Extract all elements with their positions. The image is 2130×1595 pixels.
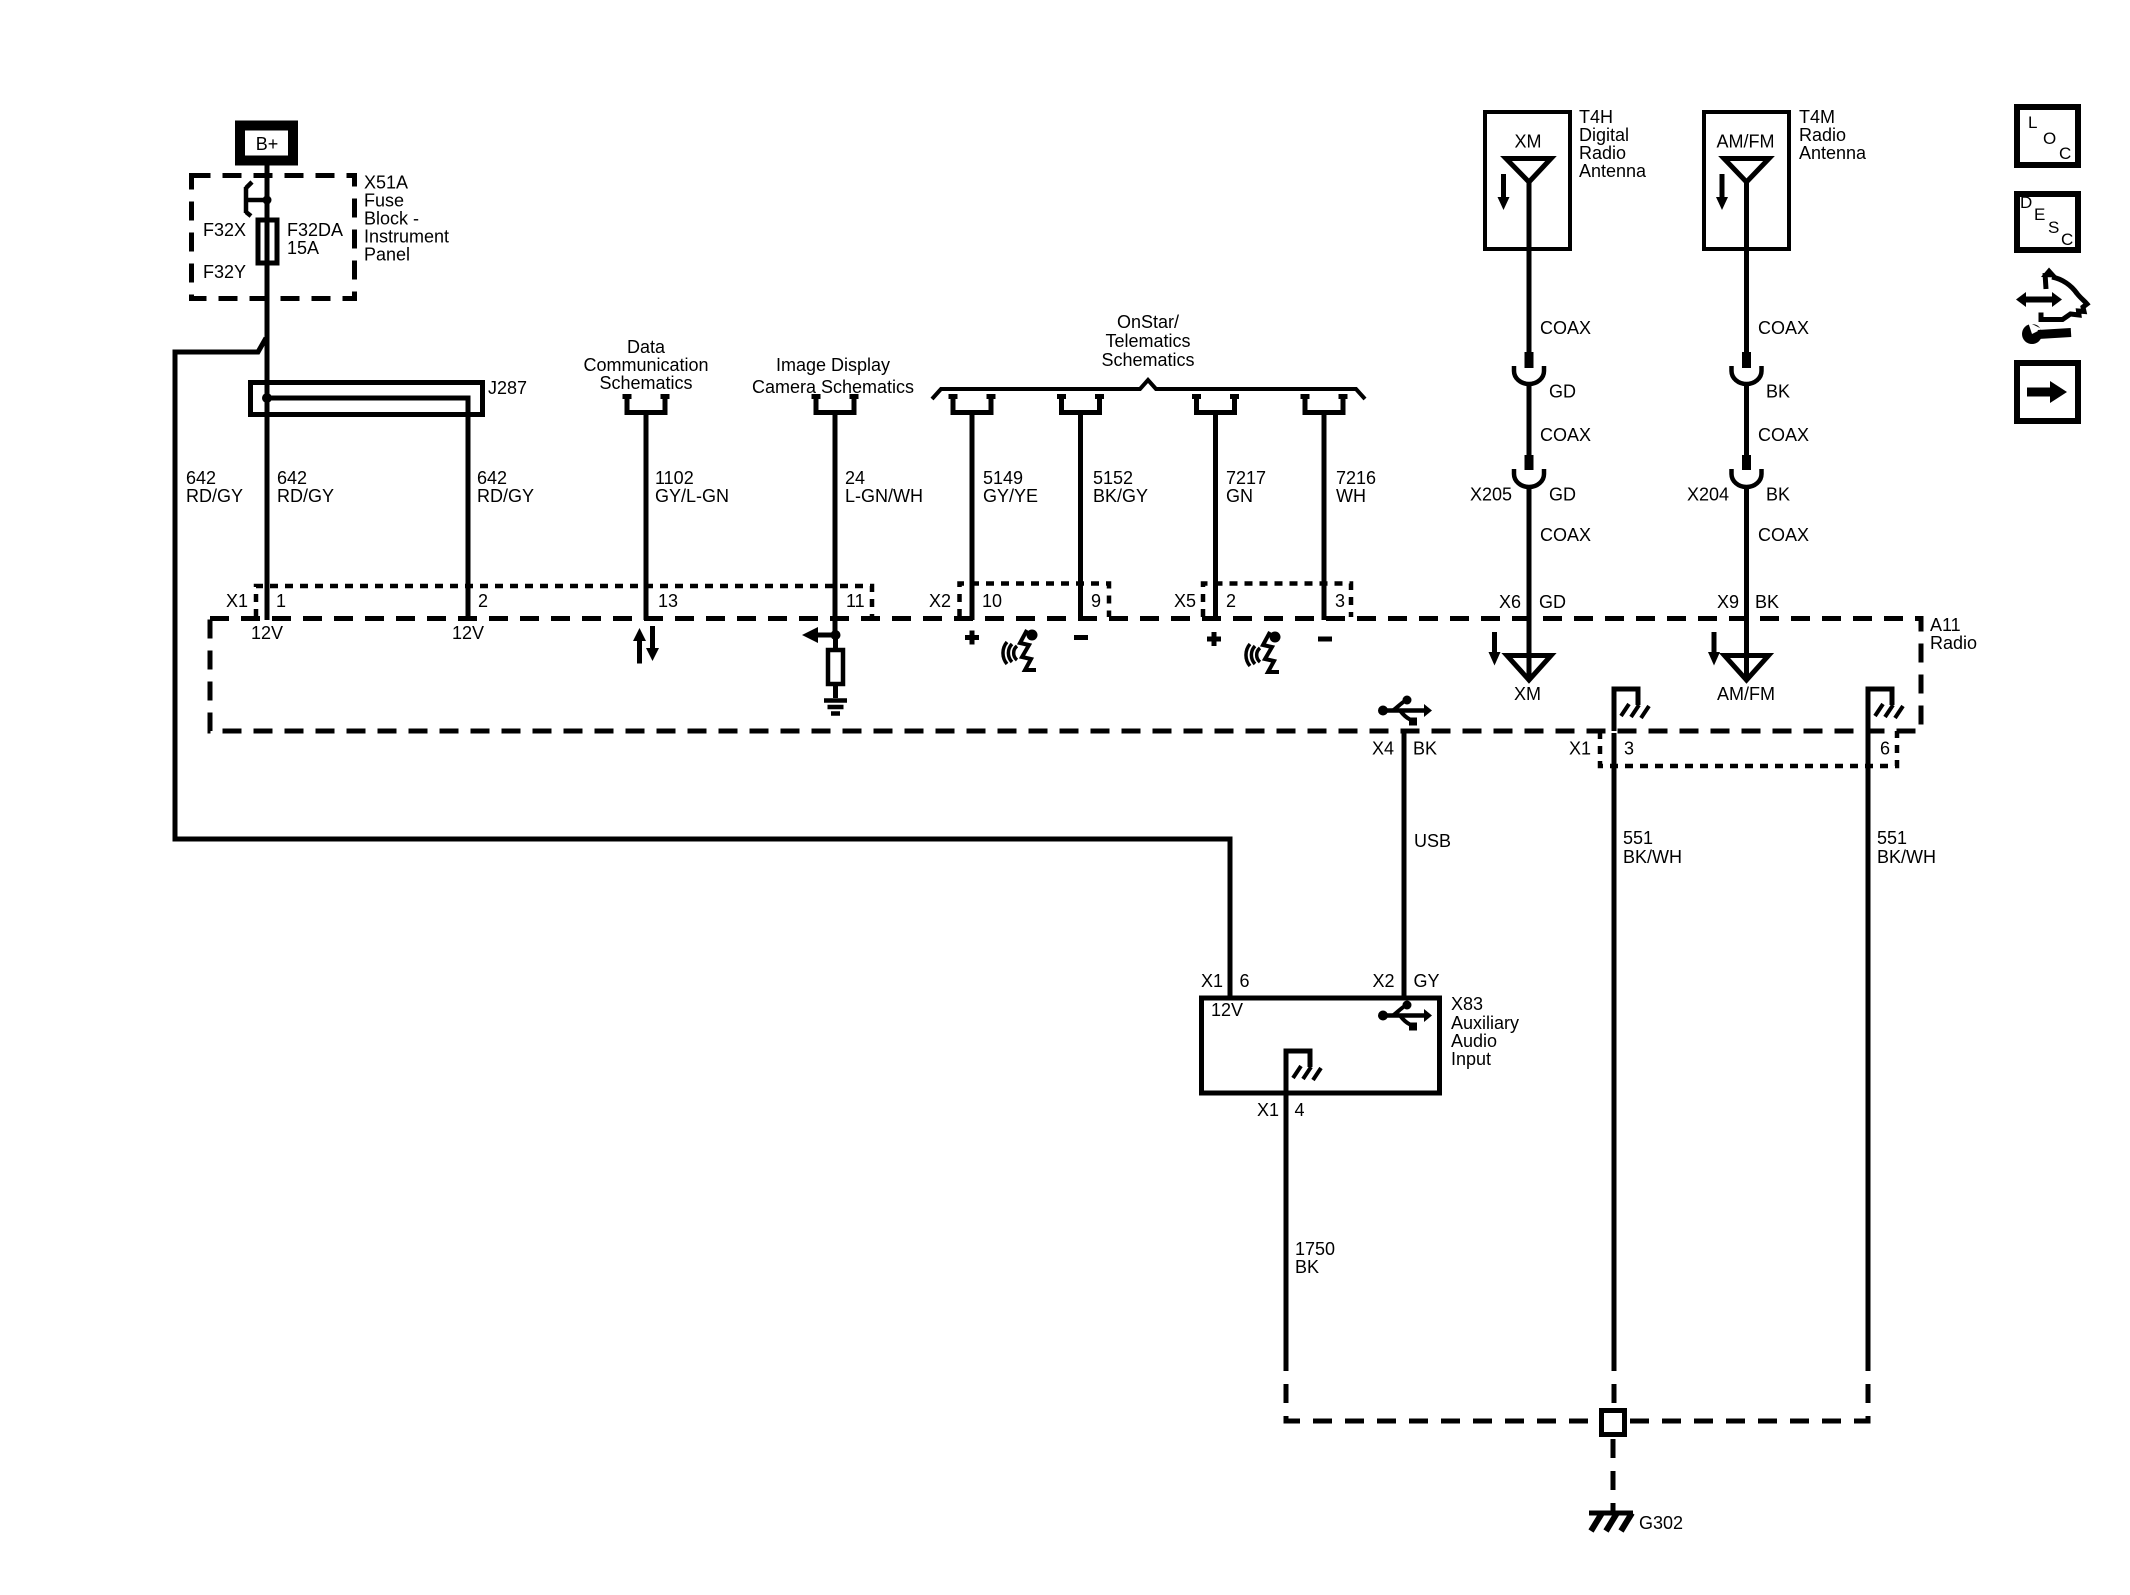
- wire label 24 L-GN/WH: [845, 468, 923, 506]
- radio XM antenna input symbol: [1489, 632, 1552, 704]
- svg-text:X1: X1: [1201, 971, 1223, 991]
- AM/FM coax wire segment 1: [1747, 249, 1810, 352]
- svg-text:GD: GD: [1549, 485, 1576, 505]
- svg-text:4: 4: [1295, 1100, 1305, 1120]
- XM coax wire segment 1: [1529, 249, 1591, 352]
- connector cup OnStar wire 5152: [1057, 397, 1104, 413]
- ground splice node: [1602, 1411, 1625, 1435]
- radio pin X4 labels: [1372, 739, 1437, 759]
- svg-text:AM/FM: AM/FM: [1717, 132, 1775, 152]
- svg-text:7217: 7217: [1226, 468, 1266, 488]
- svg-text:BK: BK: [1295, 1257, 1319, 1277]
- svg-text:12V: 12V: [1211, 1000, 1243, 1020]
- svg-text:X6: X6: [1499, 592, 1521, 612]
- fuse labels F32X F32Y F32DA 15A: [203, 220, 343, 282]
- svg-text:C: C: [2061, 230, 2073, 249]
- svg-text:T4H: T4H: [1579, 107, 1613, 127]
- svg-text:5152: 5152: [1093, 468, 1133, 488]
- fuse clip hook: [246, 182, 272, 216]
- X83 pin X1-4 labels: [1257, 1100, 1305, 1120]
- svg-text:WH: WH: [1336, 486, 1366, 506]
- AM/FM coax wire segment 2: [1747, 384, 1810, 455]
- svg-text:F32X: F32X: [203, 220, 246, 240]
- svg-text:BK: BK: [1766, 485, 1790, 505]
- svg-text:BK/GY: BK/GY: [1093, 486, 1148, 506]
- svg-text:X51A: X51A: [364, 173, 408, 193]
- svg-text:L-GN/WH: L-GN/WH: [845, 486, 923, 506]
- microphone speaker icon X5: [1246, 632, 1281, 673]
- plus sign pin 10: [965, 631, 979, 645]
- wire 7217: [1216, 413, 1267, 620]
- chassis ground G302: [1589, 1505, 1683, 1533]
- brace over OnStar wires: [932, 380, 1365, 399]
- svg-text:Radio: Radio: [1930, 633, 1977, 653]
- wire 5152: [1081, 413, 1149, 620]
- fuse block X51A dashed box: [192, 176, 355, 299]
- AM/FM inline coax connector 2 X204: [1687, 455, 1790, 505]
- svg-text:XM: XM: [1514, 684, 1541, 704]
- label T4M Radio Antenna: [1799, 107, 1867, 163]
- XM inline coax connector 1: [1514, 352, 1576, 402]
- svg-text:Image Display: Image Display: [776, 355, 890, 375]
- svg-text:BK/WH: BK/WH: [1877, 847, 1936, 867]
- svg-text:3: 3: [1624, 739, 1634, 759]
- wire 7216: [1324, 413, 1376, 620]
- svg-text:1: 1: [276, 591, 286, 611]
- svg-text:T4M: T4M: [1799, 107, 1835, 127]
- svg-text:GD: GD: [1539, 592, 1566, 612]
- wire 1102: [644, 413, 649, 620]
- svg-text:F32DA: F32DA: [287, 220, 343, 240]
- wire labels 642 RD/GY x3: [186, 468, 534, 506]
- XM coax wire segment 2: [1529, 384, 1591, 455]
- svg-text:24: 24: [845, 468, 865, 488]
- svg-text:Data: Data: [627, 337, 666, 357]
- svg-text:OnStar/: OnStar/: [1117, 312, 1179, 332]
- svg-text:COAX: COAX: [1758, 318, 1809, 338]
- legend icon repair arrow and wrench: [2016, 268, 2087, 345]
- svg-text:RD/GY: RD/GY: [477, 486, 534, 506]
- connector cup to Data Communication Schematics: [623, 397, 670, 413]
- svg-text:XM: XM: [1515, 132, 1542, 152]
- connector cup OnStar wire 7216: [1301, 397, 1348, 413]
- resistor inside radio at pin 11: [828, 635, 843, 698]
- legend icon next-page arrow: [2017, 363, 2078, 421]
- svg-text:GD: GD: [1549, 382, 1576, 402]
- svg-text:X4: X4: [1372, 739, 1394, 759]
- svg-text:A11: A11: [1930, 615, 1961, 635]
- label T4H Digital Radio Antenna: [1579, 107, 1647, 181]
- pin 12V labels: [251, 623, 484, 643]
- antenna T4M box: [1704, 112, 1789, 249]
- svg-text:BK/WH: BK/WH: [1623, 847, 1682, 867]
- svg-text:Panel: Panel: [364, 245, 410, 265]
- svg-text:Radio: Radio: [1579, 143, 1626, 163]
- USB icon inside X83: [1378, 1001, 1432, 1031]
- svg-text:642: 642: [186, 468, 216, 488]
- svg-text:X1: X1: [1569, 739, 1591, 759]
- svg-text:3: 3: [1335, 591, 1345, 611]
- svg-text:X1: X1: [1257, 1100, 1279, 1120]
- label Image Display Camera Schematics: [752, 355, 914, 397]
- svg-text:Auxiliary: Auxiliary: [1451, 1013, 1519, 1033]
- X83 auxiliary audio input box: [1202, 998, 1440, 1093]
- fuse F32DA 15A: [258, 220, 277, 263]
- wire 1750 BK: [1286, 1095, 1335, 1352]
- svg-text:BK: BK: [1755, 592, 1779, 612]
- internal ground inside X83: [1286, 1051, 1321, 1093]
- svg-text:12V: 12V: [452, 623, 484, 643]
- svg-text:USB: USB: [1414, 831, 1451, 851]
- X83 12V label: [1211, 1000, 1243, 1020]
- svg-text:L: L: [2028, 113, 2037, 132]
- svg-text:X9: X9: [1717, 592, 1739, 612]
- svg-text:551: 551: [1623, 828, 1653, 848]
- AM/FM inline coax connector 1: [1732, 352, 1791, 402]
- connector cup OnStar wire 7217: [1192, 397, 1239, 413]
- pin 13 data arrows: [633, 626, 659, 664]
- legend icon DESC: [2017, 193, 2078, 250]
- connector strip X1 (pins 1 2 13 11): [226, 586, 872, 617]
- svg-text:Audio: Audio: [1451, 1031, 1497, 1051]
- svg-text:13: 13: [658, 591, 678, 611]
- svg-text:15A: 15A: [287, 238, 319, 258]
- USB wire to X83: [1404, 733, 1451, 997]
- svg-text:Instrument: Instrument: [364, 227, 449, 247]
- svg-text:X5: X5: [1174, 591, 1196, 611]
- svg-text:RD/GY: RD/GY: [186, 486, 243, 506]
- label OnStar/Telematics Schematics: [1101, 312, 1194, 370]
- connector strip X1 bottom (pins 3 6): [1569, 731, 1897, 766]
- svg-text:2: 2: [1226, 591, 1236, 611]
- svg-text:COAX: COAX: [1540, 425, 1591, 445]
- svg-text:Camera Schematics: Camera Schematics: [752, 377, 914, 397]
- svg-text:GY: GY: [1414, 971, 1440, 991]
- svg-text:C: C: [2059, 144, 2071, 163]
- connector cup to Image Display Camera Schematics: [812, 397, 859, 413]
- svg-text:AM/FM: AM/FM: [1717, 684, 1775, 704]
- svg-text:B+: B+: [256, 134, 279, 154]
- label X83 Auxiliary Audio Input: [1451, 994, 1519, 1069]
- X83 pin labels X1 6 X2 GY: [1201, 971, 1440, 991]
- svg-text:COAX: COAX: [1540, 525, 1591, 545]
- XM inline coax connector 2 X205: [1470, 455, 1576, 505]
- minus sign pin 9: [1074, 635, 1088, 640]
- svg-text:6: 6: [1880, 739, 1890, 759]
- svg-text:Telematics: Telematics: [1105, 331, 1190, 351]
- antenna symbol in T4H: [1506, 159, 1551, 250]
- svg-text:GY/L-GN: GY/L-GN: [655, 486, 729, 506]
- svg-text:Fuse: Fuse: [364, 191, 404, 211]
- minus sign X5 pin 3: [1318, 637, 1332, 642]
- internal ground at radio pin X1-3: [1614, 689, 1649, 731]
- connector strip X2 (pins 10 9): [929, 584, 1109, 618]
- antenna symbol in T4M: [1724, 159, 1769, 250]
- dashed ground distribution wires: [1286, 1352, 1868, 1505]
- svg-text:O: O: [2043, 129, 2056, 148]
- svg-text:10: 10: [982, 591, 1002, 611]
- wire 642 branch feed to X83 aux input: [175, 338, 1230, 997]
- internal ground at radio pin X1-6: [1868, 689, 1903, 731]
- svg-text:S: S: [2048, 218, 2059, 237]
- connector strip X5 (pins 2 3): [1174, 584, 1351, 618]
- radio AM/FM antenna input symbol: [1708, 632, 1775, 704]
- svg-text:X1: X1: [226, 591, 248, 611]
- svg-text:642: 642: [277, 468, 307, 488]
- svg-text:BK: BK: [1766, 382, 1790, 402]
- radio A11 dashed box: [210, 615, 1977, 731]
- junction block J287: [251, 378, 528, 415]
- svg-text:BK: BK: [1413, 739, 1437, 759]
- svg-text:COAX: COAX: [1758, 525, 1809, 545]
- wire 24 to radio pin 11: [833, 413, 838, 635]
- svg-text:G302: G302: [1639, 1513, 1683, 1533]
- svg-text:X2: X2: [1373, 971, 1395, 991]
- wire 642 from B+ through fuse to J287: [265, 164, 270, 382]
- svg-text:GY/YE: GY/YE: [983, 486, 1038, 506]
- label Data Communication Schematics: [583, 337, 708, 393]
- legend icon LOC: [2017, 107, 2078, 165]
- svg-text:9: 9: [1091, 591, 1101, 611]
- microphone speaker icon X2: [1003, 630, 1038, 671]
- svg-text:Block -: Block -: [364, 209, 419, 229]
- wire 642 J287 to radio pin 1: [265, 382, 270, 620]
- antenna T4H box: [1485, 112, 1570, 249]
- svg-text:X2: X2: [929, 591, 951, 611]
- svg-text:Antenna: Antenna: [1579, 161, 1647, 181]
- connector cup OnStar wire 5149: [949, 397, 996, 413]
- battery B+: [240, 126, 293, 161]
- AM/FM coax wire segment 3 to radio pin X9: [1717, 487, 1809, 680]
- svg-text:5149: 5149: [983, 468, 1023, 488]
- svg-text:E: E: [2034, 205, 2045, 224]
- wire 5149: [972, 413, 1038, 620]
- svg-text:7216: 7216: [1336, 468, 1376, 488]
- svg-text:12V: 12V: [251, 623, 283, 643]
- down arrow in T4H: [1498, 174, 1510, 210]
- svg-text:1750: 1750: [1295, 1239, 1335, 1259]
- svg-text:RD/GY: RD/GY: [277, 486, 334, 506]
- wire 642 branch bus inside J287 to radio pin 2: [267, 398, 468, 620]
- svg-text:GN: GN: [1226, 486, 1253, 506]
- svg-text:Radio: Radio: [1799, 125, 1846, 145]
- wire label 1102 GY/L-GN: [655, 468, 729, 506]
- pin 11 left arrow and junction: [802, 627, 841, 643]
- svg-text:Schematics: Schematics: [1101, 350, 1194, 370]
- wire 551 from pin 6: [1868, 733, 1936, 1352]
- svg-text:Antenna: Antenna: [1799, 143, 1867, 163]
- svg-text:Input: Input: [1451, 1049, 1491, 1069]
- XM coax wire segment 3 to radio pin X6: [1499, 487, 1591, 680]
- svg-text:COAX: COAX: [1758, 425, 1809, 445]
- svg-text:X205: X205: [1470, 485, 1512, 505]
- fuse block label X51A: [364, 173, 449, 265]
- svg-text:2: 2: [478, 591, 488, 611]
- svg-text:1102: 1102: [655, 468, 694, 488]
- USB icon at radio pin X4: [1378, 696, 1432, 726]
- plus sign X5 pin 2: [1207, 632, 1221, 646]
- svg-text:Communication: Communication: [583, 355, 708, 375]
- svg-text:Schematics: Schematics: [599, 373, 692, 393]
- svg-text:Digital: Digital: [1579, 125, 1629, 145]
- svg-text:X204: X204: [1687, 485, 1729, 505]
- wire 551 from pin 3: [1614, 733, 1682, 1352]
- svg-text:642: 642: [477, 468, 507, 488]
- svg-text:J287: J287: [488, 378, 527, 398]
- earth ground at pin 11 resistor: [824, 701, 847, 714]
- svg-text:D: D: [2020, 193, 2032, 212]
- svg-text:6: 6: [1240, 971, 1250, 991]
- svg-text:X83: X83: [1451, 994, 1483, 1014]
- svg-text:F32Y: F32Y: [203, 262, 246, 282]
- svg-text:11: 11: [846, 591, 865, 611]
- down arrow in T4M: [1716, 174, 1728, 210]
- svg-text:551: 551: [1877, 828, 1907, 848]
- svg-text:COAX: COAX: [1540, 318, 1591, 338]
